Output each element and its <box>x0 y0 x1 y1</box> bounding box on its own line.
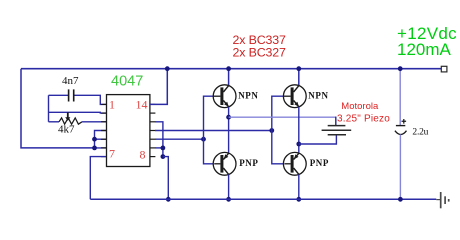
ground rail <box>90 198 436 200</box>
node pin14 rail junction <box>165 66 170 71</box>
wire NPN2 emitter node <box>298 107 300 153</box>
svg-text:2x BC327: 2x BC327 <box>233 46 286 60</box>
capacitor C2 2.2u <box>396 125 405 127</box>
svg-text:2.2u: 2.2u <box>412 127 428 137</box>
svg-text:4k7: 4k7 <box>58 124 75 136</box>
wire NPN2 collector to rail <box>298 69 300 86</box>
wire pin10 drive pair1 <box>155 138 204 140</box>
op IC U1 4047 body <box>107 95 150 167</box>
svg-text:1: 1 <box>109 97 115 111</box>
wire pin7 to ground <box>90 157 106 200</box>
svg-text:PNP: PNP <box>239 158 258 168</box>
plus sign <box>402 119 407 124</box>
node cap ground junction <box>398 197 403 202</box>
ground symbol <box>436 192 448 208</box>
svg-text:Motorola: Motorola <box>341 101 379 112</box>
wire pin14 to rail <box>150 69 167 105</box>
wire pin12 down <box>155 122 163 157</box>
node output2 junction <box>296 142 301 147</box>
wire pin9 tie <box>155 147 163 149</box>
trimmer wiper arrow <box>67 112 69 117</box>
node cap rail junction <box>398 66 403 71</box>
+12V terminal <box>441 66 447 72</box>
node pin8 junction <box>161 154 166 159</box>
wire PNP2 collector to ground <box>298 175 300 200</box>
node NPN1 rail junction <box>226 66 231 71</box>
svg-text:NPN: NPN <box>308 90 328 100</box>
node NPN2 rail junction <box>296 66 301 71</box>
svg-text:120mA: 120mA <box>397 40 452 59</box>
node pin5 junction <box>92 137 97 142</box>
wire cap left lead <box>49 94 69 96</box>
IC pin stubs left <box>101 104 107 156</box>
svg-text:4n7: 4n7 <box>62 75 79 87</box>
transistor Q3 NPN <box>283 85 306 108</box>
transistor Q1 NPN <box>213 85 236 108</box>
capacitor C2 2.2u wire top <box>399 69 401 126</box>
wire pin2 <box>49 111 107 114</box>
node ground rail junction 1 <box>166 197 171 202</box>
capacitor C2 wire bottom <box>399 134 401 199</box>
node pin9 junction <box>161 146 166 151</box>
transistor Q4 PNP <box>283 152 306 175</box>
wire pin11 drive pair2 <box>155 130 272 132</box>
node base column1 junction <box>201 137 206 142</box>
svg-text:3.25" Piezo: 3.25" Piezo <box>337 113 390 124</box>
wire pin8 to ground rail <box>163 157 168 200</box>
svg-text:8: 8 <box>140 148 146 162</box>
wire NPN1 emitter node <box>228 107 230 153</box>
resistor R1 4k7 <box>49 121 60 123</box>
node ground rail junction 2 <box>226 197 231 202</box>
IC pin stubs right <box>150 104 156 156</box>
left supply wire <box>21 69 95 148</box>
speaker piezo plates <box>328 125 346 127</box>
svg-text:7: 7 <box>109 147 115 161</box>
svg-text:NPN: NPN <box>238 90 258 100</box>
wire cap right lead to pin 1 <box>75 95 107 104</box>
node output1 junction <box>226 115 231 120</box>
wire PNP1 collector to ground <box>228 175 230 200</box>
transistor Q2 PNP <box>213 152 236 175</box>
+12V top rail <box>21 68 441 70</box>
wire base column 2 <box>272 96 285 164</box>
node pin6 junction <box>92 146 97 151</box>
wire piezo top lead <box>229 116 336 118</box>
svg-text:4047: 4047 <box>111 74 143 90</box>
wire RC left vertical <box>48 95 50 122</box>
wire pin5 stub <box>95 138 107 140</box>
node base column2 junction <box>269 128 274 133</box>
node ground rail junction 3 <box>296 197 301 202</box>
wire base column 1 <box>204 96 215 164</box>
wire NPN1 collector to rail <box>228 69 230 86</box>
svg-text:14: 14 <box>136 97 148 111</box>
wire piezo bottom lead <box>299 135 337 144</box>
capacitor C1 4n7 <box>68 89 70 101</box>
svg-text:PNP: PNP <box>310 158 329 168</box>
wire pins 4-6 column <box>95 131 107 148</box>
